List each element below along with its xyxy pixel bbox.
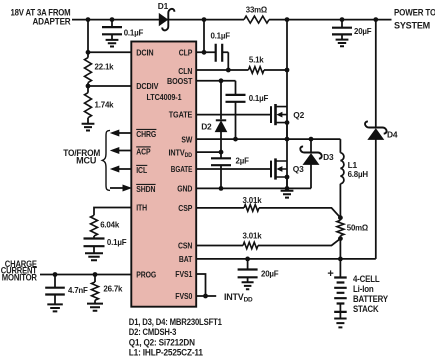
svg-text:L1: IHLP-2525CZ-11: L1: IHLP-2525CZ-11 [129, 348, 203, 358]
svg-text:BOOST: BOOST [167, 76, 192, 86]
svg-text:22.1k: 22.1k [95, 61, 114, 71]
svg-text:0.1µF: 0.1µF [210, 31, 230, 41]
svg-text:2µF: 2µF [236, 156, 249, 166]
svg-text:+: + [327, 268, 333, 280]
svg-text:ACP: ACP [136, 147, 151, 157]
svg-text:MCU: MCU [76, 156, 96, 166]
svg-text:CLP: CLP [179, 48, 193, 58]
svg-text:GND: GND [177, 184, 192, 194]
svg-text:DCDIV: DCDIV [136, 81, 159, 91]
svg-text:SW: SW [181, 134, 192, 144]
svg-text:CSN: CSN [178, 241, 192, 251]
svg-text:4-CELL: 4-CELL [353, 274, 380, 284]
svg-text:ICL: ICL [136, 165, 147, 175]
svg-text:6.04k: 6.04k [100, 220, 119, 230]
svg-text:D2: D2 [201, 122, 212, 132]
svg-text:33mΩ: 33mΩ [246, 5, 268, 15]
svg-text:STACK: STACK [353, 304, 379, 314]
svg-text:Li-Ion: Li-Ion [353, 284, 374, 294]
svg-text:5.1k: 5.1k [249, 54, 264, 64]
svg-text:0.1µF: 0.1µF [107, 237, 127, 247]
svg-text:20µF: 20µF [354, 26, 371, 36]
svg-text:Q2: Q2 [293, 110, 304, 120]
svg-text:POWER TO: POWER TO [394, 8, 435, 18]
svg-text:0.1µF: 0.1µF [249, 93, 269, 103]
svg-text:1.74k: 1.74k [95, 99, 114, 109]
svg-text:SYSTEM: SYSTEM [394, 21, 430, 31]
svg-text:FVS0: FVS0 [175, 291, 192, 301]
svg-text:Q3: Q3 [293, 164, 304, 174]
svg-text:CLN: CLN [178, 66, 192, 76]
svg-text:0.1µF: 0.1µF [124, 27, 144, 37]
svg-text:Q1, Q2: Si7212DN: Q1, Q2: Si7212DN [129, 338, 195, 348]
svg-text:D2: CMDSH-3: D2: CMDSH-3 [129, 327, 177, 337]
svg-text:50mΩ: 50mΩ [347, 222, 369, 232]
svg-text:BATTERY: BATTERY [353, 294, 388, 304]
svg-text:D4: D4 [387, 130, 398, 140]
svg-text:DCIN: DCIN [136, 48, 153, 58]
svg-text:20µF: 20µF [261, 269, 278, 279]
svg-text:PROG: PROG [136, 270, 156, 280]
svg-text:TGATE: TGATE [169, 110, 193, 120]
svg-text:MONITOR: MONITOR [2, 273, 38, 283]
svg-text:SHDN: SHDN [136, 184, 155, 194]
svg-text:D1, D3, D4: MBR230LSFT1: D1, D3, D4: MBR230LSFT1 [129, 317, 222, 327]
svg-text:3.01k: 3.01k [243, 195, 262, 205]
svg-text:LTC4009-1: LTC4009-1 [147, 92, 182, 102]
svg-text:BAT: BAT [179, 254, 192, 264]
svg-text:4.7nF: 4.7nF [68, 285, 88, 295]
svg-text:ADAPTER: ADAPTER [33, 16, 72, 26]
svg-text:BGATE: BGATE [171, 164, 193, 174]
svg-text:ITH: ITH [136, 203, 147, 213]
svg-text:6.8µH: 6.8µH [348, 169, 368, 179]
svg-text:CSP: CSP [178, 203, 192, 213]
svg-text:26.7k: 26.7k [103, 284, 122, 294]
svg-text:FVS1: FVS1 [175, 269, 192, 279]
svg-text:D1: D1 [158, 1, 169, 11]
svg-text:3.01k: 3.01k [243, 230, 262, 240]
svg-text:D3: D3 [323, 152, 334, 162]
svg-text:CHRG: CHRG [136, 129, 156, 139]
